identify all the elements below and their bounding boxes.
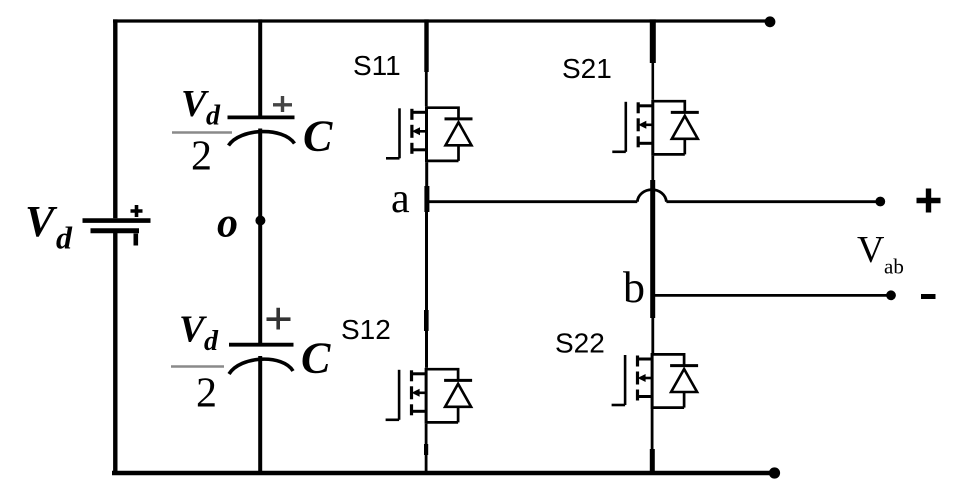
battery V1 positive plate — [83, 218, 151, 223]
wire node a right of hop — [666, 200, 880, 203]
transistor S22 — [612, 353, 699, 409]
battery V1 plus mark — [131, 205, 143, 217]
wire top bus — [113, 19, 770, 22]
svg-text:S11: S11 — [353, 50, 401, 81]
svg-text:o: o — [217, 201, 238, 247]
wire S11 top leg — [424, 19, 428, 72]
wire S12 bottom leg — [425, 424, 428, 473]
output plus sign — [917, 189, 941, 213]
wire capacitor branch upper — [258, 19, 262, 118]
capacitor C1 curved plate — [229, 132, 295, 146]
node top-right terminal dot — [765, 16, 776, 27]
svg-text:d: d — [206, 101, 221, 132]
svg-text:d: d — [56, 220, 73, 256]
wire capacitor branch middle — [258, 129, 262, 344]
svg-text:V: V — [181, 83, 209, 125]
battery V1 negative plate — [91, 228, 140, 233]
wire hop over S21 leg — [637, 190, 666, 202]
wire node b — [653, 294, 891, 297]
svg-text:d: d — [204, 326, 219, 357]
output minus sign — [921, 294, 936, 299]
node bottom-right dot — [769, 467, 780, 478]
node a+ terminal dot — [875, 197, 885, 207]
wire node a to left of hop — [427, 200, 637, 203]
wire a-S12 leg — [425, 202, 428, 368]
capacitor C1 top plate — [228, 116, 295, 120]
battery V1 minus tick — [134, 234, 139, 246]
svg-text:S12: S12 — [341, 314, 391, 345]
svg-text:b: b — [623, 263, 645, 312]
svg-text:S21: S21 — [562, 53, 612, 84]
wire left vertical upper — [113, 19, 117, 218]
svg-text:a: a — [391, 176, 410, 222]
wire S22 bottom leg — [651, 409, 654, 473]
svg-text:V: V — [179, 309, 207, 351]
svg-text:C: C — [303, 112, 333, 161]
capacitor C2 top plate — [229, 343, 294, 347]
capacitor C2 plus mark — [267, 308, 291, 330]
svg-text:ab: ab — [884, 255, 904, 279]
svg-text:2: 2 — [196, 371, 217, 417]
svg-text:2: 2 — [191, 134, 212, 180]
capacitor C1 plus-minus mark — [273, 96, 292, 112]
svg-text:S22: S22 — [555, 328, 605, 359]
svg-text:V: V — [25, 197, 58, 246]
wire capacitor branch lower — [258, 356, 262, 473]
transistor S11 — [386, 106, 473, 162]
svg-text:V: V — [857, 229, 885, 271]
wire S11-a leg — [425, 162, 428, 202]
transistor S12 — [386, 368, 473, 424]
svg-text:C: C — [301, 334, 331, 383]
node o dot — [255, 216, 265, 226]
transistor S21 — [612, 100, 699, 156]
wire left vertical lower — [113, 233, 117, 474]
wire S21-S22 leg — [651, 156, 654, 353]
wire S21 top leg — [650, 19, 656, 63]
node b- terminal dot — [886, 290, 896, 300]
wire bottom bus — [112, 471, 775, 475]
capacitor C2 curved plate — [229, 359, 293, 374]
